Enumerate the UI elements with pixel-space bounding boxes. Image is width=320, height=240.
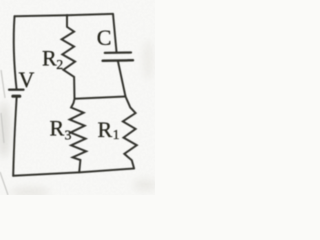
svg-text:2: 2 [56, 58, 63, 73]
wire top [15, 14, 114, 16]
wire bottom [13, 169, 134, 176]
capacitor C top plate [105, 51, 131, 54]
paper noise [0, 0, 155, 195]
scan artifact faint line left edge [0, 70, 8, 195]
svg-text:V: V [19, 67, 35, 92]
svg-text:R: R [42, 45, 57, 70]
svg-text:3: 3 [65, 128, 72, 143]
battery V plate long [9, 89, 23, 91]
svg-text:C: C [97, 25, 112, 50]
wire middle [75, 97, 126, 99]
svg-text:1: 1 [113, 128, 120, 143]
capacitor C bottom plate [103, 59, 133, 62]
wire capacitor bottom lead [118, 62, 126, 97]
battery V plate short [13, 95, 20, 98]
wire left upper [14, 16, 17, 88]
wire left lower [13, 98, 16, 176]
svg-text:R: R [98, 117, 113, 142]
resistor R1 [123, 97, 137, 169]
resistor R2 [62, 15, 76, 99]
wire right upper [113, 14, 117, 52]
paper mottle blobs [0, 40, 157, 197]
resistor R3 [70, 99, 87, 173]
svg-text:R: R [50, 116, 65, 141]
